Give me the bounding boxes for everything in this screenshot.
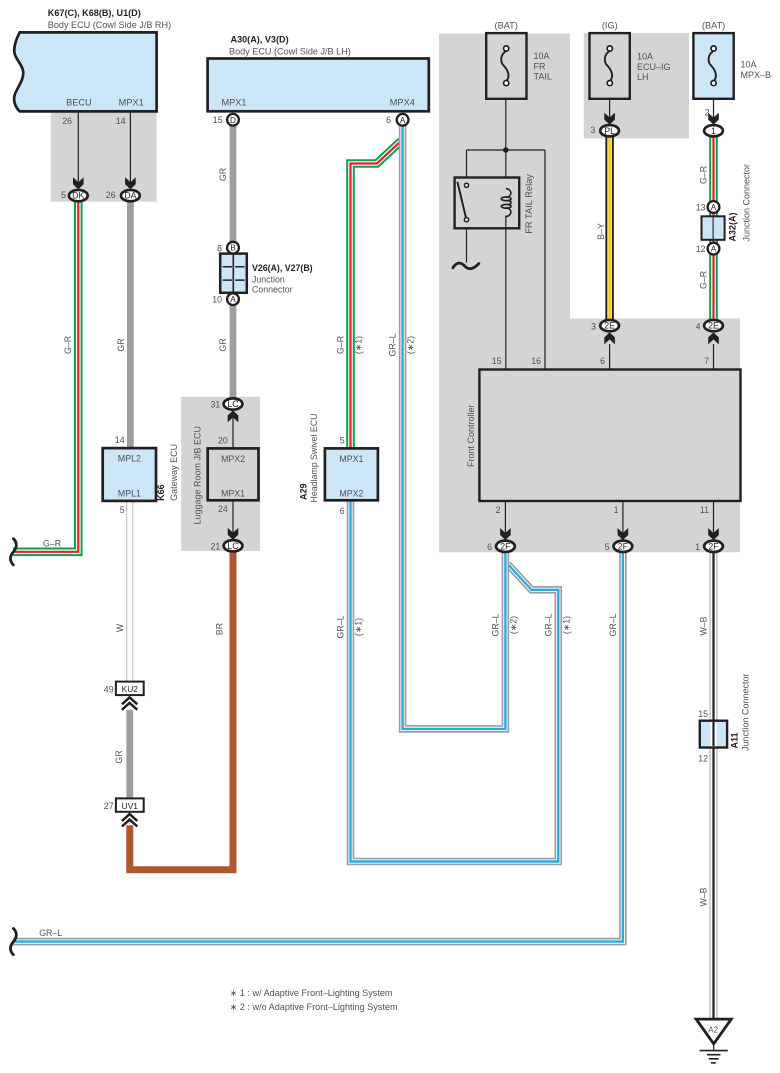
svg-text:UV1: UV1	[122, 801, 139, 811]
svg-text:31: 31	[211, 400, 221, 410]
svg-text:10: 10	[212, 295, 222, 305]
svg-text:DK: DK	[72, 191, 84, 201]
svg-text:BECU: BECU	[66, 98, 92, 108]
svg-text:Body ECU (Cowl Side J/B LH): Body ECU (Cowl Side J/B LH)	[229, 46, 351, 56]
svg-text:FR TAIL Relay: FR TAIL Relay	[524, 174, 534, 234]
svg-text:GR–L: GR–L	[336, 615, 346, 638]
svg-text:∗ 2 : w/o Adaptive Front–Light: ∗ 2 : w/o Adaptive Front–Lighting System	[230, 1002, 398, 1012]
svg-text:2: 2	[496, 505, 501, 515]
svg-text:27: 27	[104, 801, 114, 811]
svg-text:W–B: W–B	[699, 616, 709, 635]
svg-text:A2: A2	[708, 1025, 718, 1034]
svg-text:MPL1: MPL1	[118, 488, 141, 498]
svg-text:(∗2): (∗2)	[508, 616, 518, 634]
svg-text:K66: K66	[156, 484, 166, 501]
svg-text:A: A	[711, 245, 717, 254]
svg-text:G–R: G–R	[336, 336, 346, 354]
svg-text:G–R: G–R	[699, 271, 709, 289]
svg-text:KU2: KU2	[122, 684, 139, 694]
svg-text:LH: LH	[637, 72, 649, 82]
svg-text:GR: GR	[114, 750, 124, 763]
svg-text:Headlamp Swivel ECU: Headlamp Swivel ECU	[309, 414, 319, 503]
svg-text:LC: LC	[227, 541, 239, 551]
svg-text:A29: A29	[299, 483, 309, 500]
svg-text:2F: 2F	[618, 541, 629, 551]
svg-text:10A: 10A	[741, 60, 757, 70]
svg-text:(∗1): (∗1)	[561, 616, 571, 634]
svg-text:Gateway ECU: Gateway ECU	[169, 444, 179, 501]
svg-text:B–Y: B–Y	[596, 223, 606, 240]
svg-text:MPX4: MPX4	[390, 98, 415, 108]
svg-text:1: 1	[711, 126, 716, 136]
svg-text:LC: LC	[227, 399, 239, 409]
svg-text:15: 15	[213, 115, 223, 125]
svg-text:∗ 1 : w/ Adaptive Front–Lighti: ∗ 1 : w/ Adaptive Front–Lighting System	[230, 988, 393, 998]
svg-text:13: 13	[696, 203, 706, 213]
svg-text:GR–L: GR–L	[543, 613, 553, 636]
svg-text:2: 2	[705, 108, 710, 118]
svg-text:12: 12	[696, 244, 706, 254]
svg-text:Junction Connector: Junction Connector	[742, 164, 752, 242]
svg-text:G–R: G–R	[699, 166, 709, 184]
svg-text:W: W	[115, 623, 125, 632]
svg-text:7: 7	[704, 356, 709, 366]
svg-text:12: 12	[698, 754, 708, 764]
svg-text:A: A	[711, 203, 717, 212]
svg-text:(BAT): (BAT)	[495, 20, 518, 30]
svg-text:24: 24	[218, 504, 228, 514]
svg-text:2E: 2E	[708, 321, 719, 331]
svg-text:Connector: Connector	[252, 285, 293, 295]
svg-text:1: 1	[695, 542, 700, 552]
svg-text:MPX1: MPX1	[221, 489, 245, 499]
svg-text:TAIL: TAIL	[534, 72, 552, 82]
svg-text:Junction: Junction	[252, 275, 285, 285]
svg-text:G–R: G–R	[43, 538, 61, 548]
svg-text:D: D	[230, 116, 236, 125]
svg-text:26: 26	[106, 190, 116, 200]
svg-text:A: A	[400, 116, 406, 125]
svg-text:5: 5	[605, 542, 610, 552]
svg-text:Front Controller: Front Controller	[466, 404, 476, 467]
svg-text:V26(A), V27(B): V26(A), V27(B)	[252, 263, 313, 273]
svg-text:10A: 10A	[637, 52, 653, 62]
svg-text:GR: GR	[218, 168, 228, 181]
svg-text:14: 14	[116, 116, 126, 126]
svg-text:PL: PL	[604, 126, 615, 136]
svg-text:20: 20	[218, 435, 228, 445]
svg-text:MPX2: MPX2	[339, 489, 363, 499]
svg-text:A30(A), V3(D): A30(A), V3(D)	[231, 34, 289, 44]
svg-text:MPX1: MPX1	[119, 98, 144, 108]
svg-text:21: 21	[211, 541, 221, 551]
svg-text:(∗2): (∗2)	[406, 336, 416, 354]
svg-text:4: 4	[696, 321, 701, 331]
svg-text:MPX1: MPX1	[221, 98, 246, 108]
svg-text:MPX2: MPX2	[221, 454, 245, 464]
svg-text:5: 5	[120, 505, 125, 515]
svg-text:26: 26	[62, 116, 72, 126]
svg-text:1: 1	[614, 505, 619, 515]
svg-text:GR: GR	[218, 338, 228, 351]
svg-text:DA: DA	[124, 191, 136, 201]
svg-text:5: 5	[61, 190, 66, 200]
svg-text:6: 6	[386, 115, 391, 125]
svg-text:MPL2: MPL2	[118, 454, 141, 464]
svg-text:MPX–B: MPX–B	[741, 70, 772, 80]
svg-text:BR: BR	[215, 623, 225, 635]
svg-text:GR–L: GR–L	[490, 613, 500, 636]
svg-text:2F: 2F	[500, 541, 511, 551]
svg-text:(BAT): (BAT)	[702, 20, 725, 30]
svg-text:B: B	[230, 244, 236, 253]
svg-text:Junction Connector: Junction Connector	[741, 673, 751, 751]
svg-text:K67(C), K68(B), U1(D): K67(C), K68(B), U1(D)	[48, 8, 141, 18]
svg-text:3: 3	[591, 321, 596, 331]
svg-text:11: 11	[700, 505, 709, 515]
svg-text:6: 6	[340, 506, 345, 516]
svg-text:Body ECU (Cowl Side J/B RH): Body ECU (Cowl Side J/B RH)	[48, 20, 171, 30]
svg-text:(∗1): (∗1)	[354, 336, 364, 354]
svg-text:15: 15	[698, 709, 708, 719]
svg-text:GR–L: GR–L	[388, 333, 398, 356]
svg-text:GR–L: GR–L	[39, 928, 62, 938]
svg-text:MPX1: MPX1	[339, 454, 363, 464]
svg-text:ECU–IG: ECU–IG	[637, 62, 671, 72]
svg-text:3: 3	[590, 125, 595, 135]
svg-text:W–B: W–B	[699, 887, 709, 906]
svg-text:8: 8	[217, 244, 222, 254]
svg-text:A32(A): A32(A)	[728, 212, 738, 241]
svg-text:(IG): (IG)	[602, 20, 618, 30]
svg-text:15: 15	[492, 356, 502, 366]
svg-text:14: 14	[115, 435, 125, 445]
svg-text:Luggage Room J/B ECU: Luggage Room J/B ECU	[193, 426, 203, 525]
svg-text:2E: 2E	[604, 321, 615, 331]
svg-text:6: 6	[487, 542, 492, 552]
svg-text:GR–L: GR–L	[608, 613, 618, 636]
svg-text:FR: FR	[534, 61, 546, 71]
svg-text:A: A	[230, 295, 236, 304]
svg-text:49: 49	[104, 685, 114, 695]
svg-text:6: 6	[600, 356, 605, 366]
svg-text:A11: A11	[730, 732, 740, 748]
svg-text:10A: 10A	[534, 51, 550, 61]
svg-text:16: 16	[531, 356, 541, 366]
svg-text:(∗1): (∗1)	[354, 618, 364, 636]
svg-text:G–R: G–R	[63, 336, 73, 354]
svg-text:2F: 2F	[708, 541, 719, 551]
svg-text:5: 5	[340, 436, 345, 446]
svg-text:GR: GR	[116, 338, 126, 351]
